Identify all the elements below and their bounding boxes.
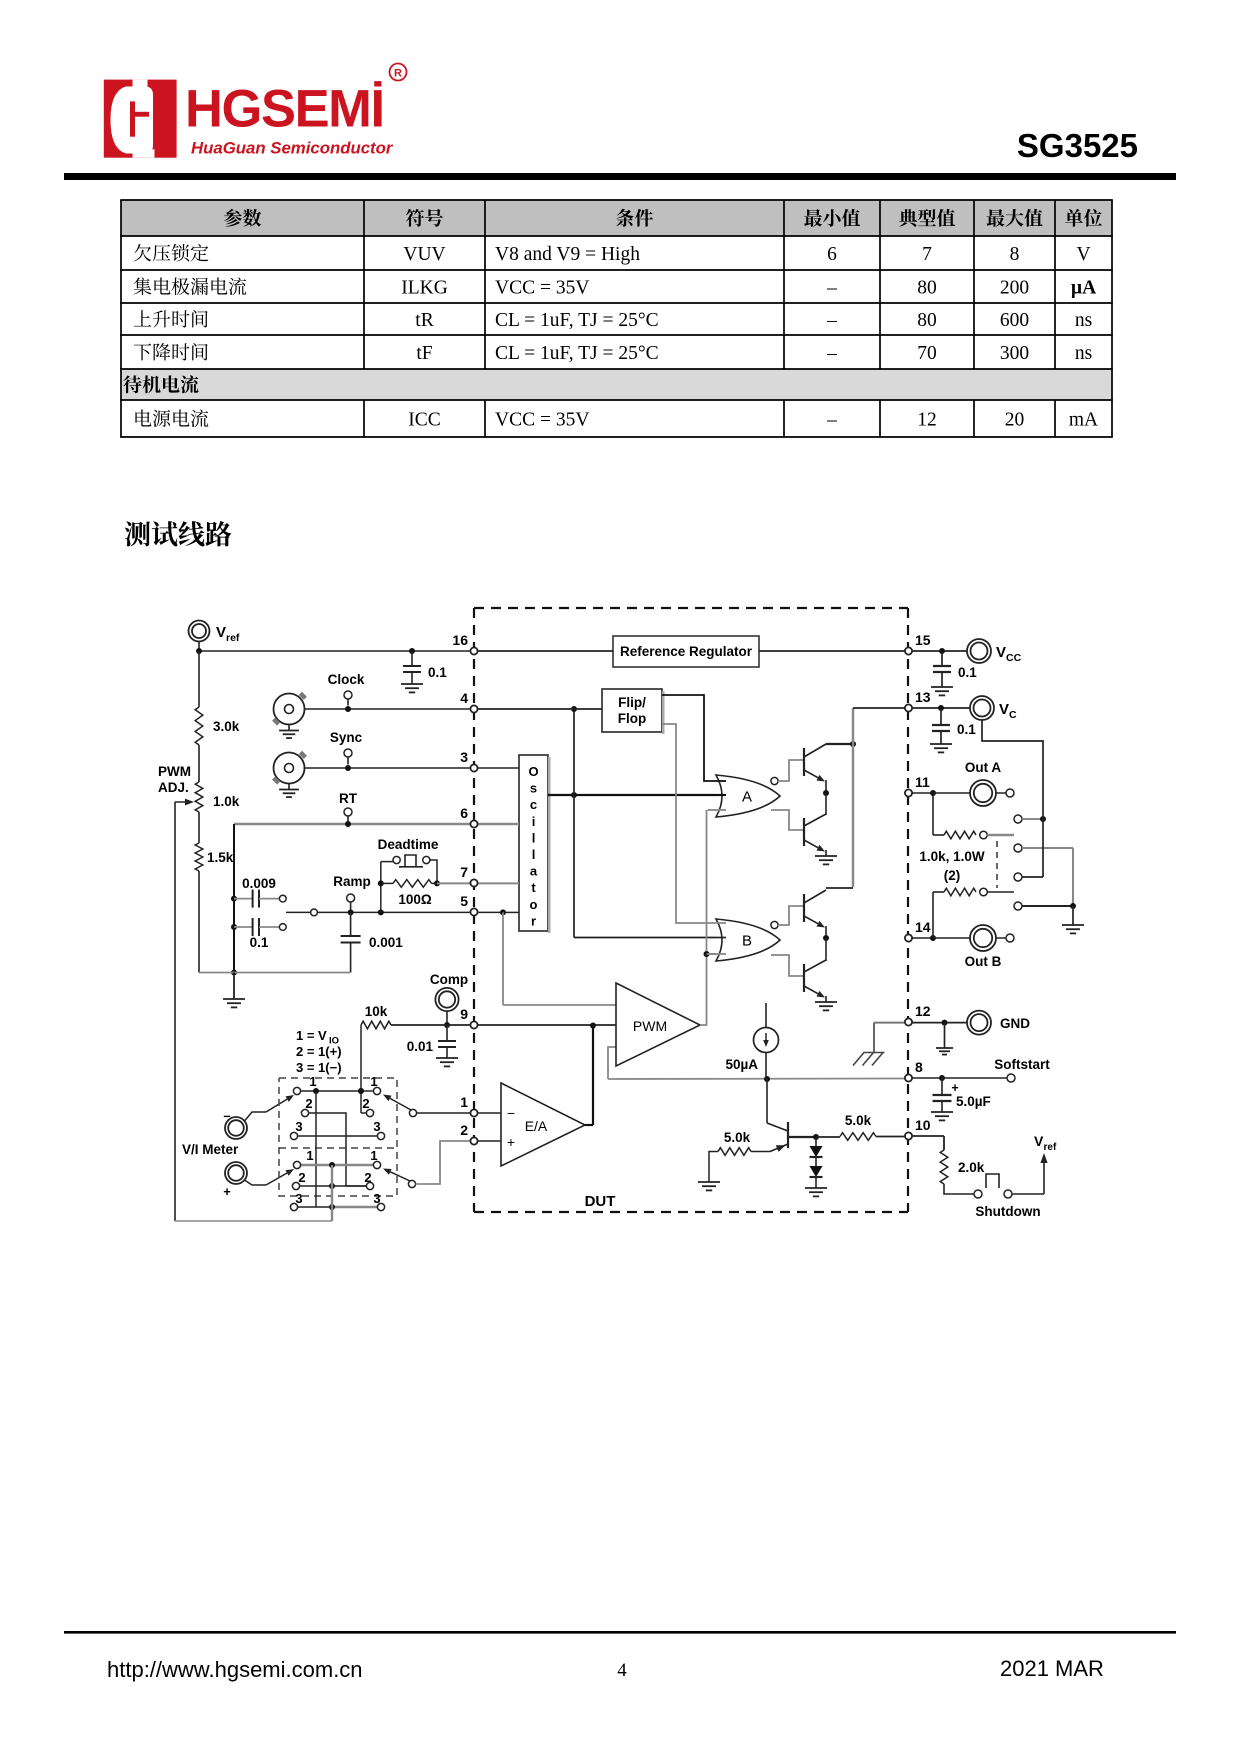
svg-text:R: R — [394, 68, 402, 80]
svg-text:3: 3 — [295, 1191, 302, 1206]
svg-text:ICC: ICC — [408, 410, 441, 431]
svg-text:−: − — [507, 1105, 515, 1121]
svg-text:t: t — [531, 880, 536, 895]
svg-text:70: 70 — [917, 343, 937, 364]
svg-text:V/I Meter: V/I Meter — [182, 1142, 239, 1157]
svg-text:200: 200 — [1000, 278, 1029, 299]
svg-text:5: 5 — [460, 893, 468, 909]
svg-text:7: 7 — [922, 244, 932, 265]
svg-text:http://www.hgsemi.com.cn: http://www.hgsemi.com.cn — [107, 1657, 363, 1682]
svg-text:Clock: Clock — [328, 672, 365, 687]
svg-text:5.0µF: 5.0µF — [956, 1094, 991, 1109]
svg-text:B: B — [742, 933, 752, 950]
svg-text:1: 1 — [306, 1148, 313, 1163]
svg-text:Flip/: Flip/ — [618, 695, 646, 710]
svg-text:Deadtime: Deadtime — [378, 837, 439, 852]
svg-text:–: – — [826, 278, 837, 299]
svg-text:1.5k: 1.5k — [207, 850, 234, 865]
svg-text:RT: RT — [339, 791, 358, 806]
svg-text:CC: CC — [1006, 652, 1022, 664]
svg-text:9: 9 — [460, 1006, 468, 1022]
svg-text:V8 and V9 = High: V8 and V9 = High — [495, 244, 640, 265]
svg-text:80: 80 — [917, 278, 937, 299]
svg-text:100Ω: 100Ω — [398, 892, 432, 907]
svg-text:+: + — [507, 1134, 515, 1150]
svg-text:DUT: DUT — [585, 1193, 616, 1210]
svg-text:8: 8 — [915, 1059, 923, 1075]
svg-text:0.1: 0.1 — [958, 665, 977, 680]
svg-text:VCC = 35V: VCC = 35V — [495, 410, 589, 431]
svg-text:0.01: 0.01 — [407, 1039, 434, 1054]
svg-text:50µA: 50µA — [725, 1057, 758, 1072]
svg-text:VUV: VUV — [403, 244, 445, 265]
svg-text:(2): (2) — [944, 868, 961, 883]
svg-text:PWM: PWM — [633, 1018, 667, 1034]
svg-text:HGSEMİ: HGSEMİ — [185, 80, 384, 139]
svg-text:i: i — [532, 814, 536, 829]
svg-text:6: 6 — [827, 244, 837, 265]
svg-text:GND: GND — [1000, 1016, 1030, 1031]
svg-text:600: 600 — [1000, 310, 1029, 331]
svg-text:CL = 1uF, TJ = 25°C: CL = 1uF, TJ = 25°C — [495, 310, 659, 331]
svg-text:VCC = 35V: VCC = 35V — [495, 278, 589, 299]
svg-text:3 = 1(−): 3 = 1(−) — [296, 1060, 342, 1075]
svg-text:0.1: 0.1 — [428, 665, 447, 680]
svg-text:Comp: Comp — [430, 972, 468, 987]
svg-text:5.0k: 5.0k — [724, 1130, 751, 1145]
svg-text:ref: ref — [226, 632, 240, 644]
svg-text:Out B: Out B — [965, 954, 1002, 969]
svg-text:0.1: 0.1 — [957, 722, 976, 737]
svg-text:tR: tR — [415, 310, 433, 331]
svg-text:Ramp: Ramp — [333, 874, 371, 889]
svg-text:1: 1 — [460, 1094, 468, 1110]
svg-text:7: 7 — [460, 864, 468, 880]
svg-text:ILKG: ILKG — [401, 278, 448, 299]
svg-text:ns: ns — [1075, 343, 1092, 364]
svg-text:4: 4 — [617, 1660, 627, 1681]
svg-text:Sync: Sync — [330, 730, 363, 745]
svg-text:20: 20 — [1005, 410, 1025, 431]
svg-text:–: – — [223, 1108, 230, 1123]
svg-text:3.0k: 3.0k — [213, 719, 240, 734]
svg-text:1: 1 — [370, 1148, 377, 1163]
svg-text:1.0k: 1.0k — [213, 794, 240, 809]
svg-text:mA: mA — [1069, 410, 1098, 431]
svg-text:Shutdown: Shutdown — [975, 1204, 1040, 1219]
svg-text:1 = V: 1 = V — [296, 1028, 327, 1043]
svg-text:µA: µA — [1071, 278, 1096, 299]
svg-text:V: V — [999, 701, 1009, 718]
svg-text:o: o — [530, 897, 538, 912]
svg-text:4: 4 — [460, 690, 468, 706]
svg-text:1: 1 — [370, 1074, 377, 1089]
svg-text:Reference Regulator: Reference Regulator — [620, 644, 753, 659]
svg-text:2: 2 — [362, 1096, 369, 1111]
svg-text:ref: ref — [1044, 1142, 1057, 1153]
svg-text:2: 2 — [305, 1096, 312, 1111]
svg-text:HuaGuan Semiconductor: HuaGuan Semiconductor — [191, 139, 394, 158]
svg-text:a: a — [530, 864, 538, 879]
svg-text:PWM: PWM — [158, 764, 191, 779]
svg-text:ADJ.: ADJ. — [158, 780, 189, 795]
svg-text:80: 80 — [917, 310, 937, 331]
svg-text:8: 8 — [1010, 244, 1020, 265]
svg-text:V: V — [1076, 244, 1090, 265]
svg-text:1: 1 — [309, 1074, 316, 1089]
svg-text:Flop: Flop — [618, 711, 647, 726]
svg-text:12: 12 — [915, 1003, 931, 1019]
svg-text:11: 11 — [915, 774, 930, 790]
svg-text:2: 2 — [460, 1122, 468, 1138]
svg-text:–: – — [826, 343, 837, 364]
svg-text:0.1: 0.1 — [250, 935, 269, 950]
svg-text:2: 2 — [364, 1170, 371, 1185]
svg-text:c: c — [530, 797, 537, 812]
svg-text:C: C — [1009, 709, 1017, 721]
svg-text:O: O — [528, 764, 538, 779]
svg-text:12: 12 — [917, 410, 937, 431]
svg-text:s: s — [530, 781, 537, 796]
svg-text:3: 3 — [373, 1119, 380, 1134]
svg-text:2021 MAR: 2021 MAR — [1000, 1656, 1104, 1681]
svg-text:–: – — [826, 310, 837, 331]
svg-text:1.0k, 1.0W: 1.0k, 1.0W — [919, 849, 985, 864]
svg-text:r: r — [531, 913, 536, 928]
svg-text:+: + — [951, 1081, 958, 1095]
svg-text:16: 16 — [452, 632, 468, 648]
svg-text:300: 300 — [1000, 343, 1029, 364]
svg-text:l: l — [532, 847, 536, 862]
svg-text:V: V — [1034, 1133, 1044, 1149]
svg-text:V: V — [216, 624, 226, 641]
svg-text:E/A: E/A — [525, 1118, 548, 1134]
svg-text:10: 10 — [915, 1117, 931, 1133]
svg-text:2: 2 — [298, 1170, 305, 1185]
svg-text:2 = 1(+): 2 = 1(+) — [296, 1044, 342, 1059]
svg-text:5.0k: 5.0k — [845, 1113, 872, 1128]
svg-text:–: – — [826, 410, 837, 431]
svg-text:3: 3 — [373, 1191, 380, 1206]
svg-text:Out A: Out A — [965, 760, 1001, 775]
svg-text:+: + — [223, 1184, 231, 1199]
svg-text:15: 15 — [915, 632, 931, 648]
svg-text:14: 14 — [915, 919, 931, 935]
svg-text:10k: 10k — [365, 1004, 388, 1019]
svg-text:l: l — [532, 830, 536, 845]
svg-text:V: V — [996, 644, 1006, 661]
svg-text:2.0k: 2.0k — [958, 1160, 985, 1175]
svg-text:0.009: 0.009 — [242, 876, 276, 891]
svg-text:6: 6 — [460, 805, 468, 821]
svg-text:Softstart: Softstart — [994, 1057, 1050, 1072]
svg-text:13: 13 — [915, 689, 931, 705]
svg-text:ns: ns — [1075, 310, 1092, 331]
svg-text:SG3525: SG3525 — [1017, 127, 1138, 164]
svg-text:0.001: 0.001 — [369, 935, 403, 950]
svg-text:3: 3 — [295, 1119, 302, 1134]
svg-text:CL = 1uF, TJ = 25°C: CL = 1uF, TJ = 25°C — [495, 343, 659, 364]
svg-text:A: A — [742, 789, 752, 806]
svg-text:3: 3 — [460, 749, 468, 765]
svg-text:tF: tF — [416, 343, 432, 364]
